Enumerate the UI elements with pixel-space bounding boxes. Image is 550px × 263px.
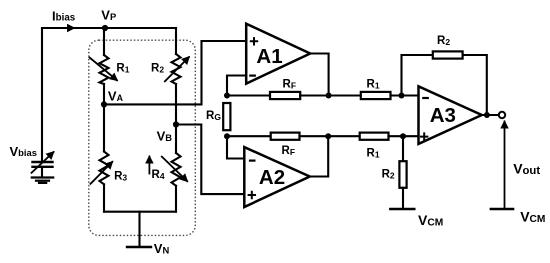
svg-text:R1: R1 xyxy=(116,63,129,75)
wire: A3 - node up to R2 feedback xyxy=(402,55,433,96)
resistor R2 (variable) xyxy=(172,54,181,84)
node: RG bottom junction xyxy=(224,133,230,139)
node: output junction xyxy=(484,112,490,118)
wire: R1(bottom) to A3 + node xyxy=(389,135,419,137)
wire: junction to R1(bottom) xyxy=(328,135,360,137)
resistor R2 (feedback) xyxy=(433,51,463,58)
svg-text:Vout: Vout xyxy=(513,161,540,177)
svg-text:A2: A2 xyxy=(259,166,285,189)
wire: VB to A2 + input xyxy=(176,125,244,195)
wire: RF(top) to junction xyxy=(300,94,328,96)
wire: junction to R1(top) xyxy=(329,94,361,96)
wire: R2 bottom to VCM terminal xyxy=(402,188,404,209)
wire: R3 bottom to bridge bottom xyxy=(103,184,105,211)
wire: VB(node) down to R4 top xyxy=(175,125,177,154)
A2 - input marker xyxy=(250,160,254,162)
op-amp A1 xyxy=(246,24,310,84)
wire: A3 output xyxy=(482,114,499,116)
voltage source Vbias (variable, two plates with arrow) xyxy=(33,162,53,167)
resistor R2 (to VCM) xyxy=(399,161,406,188)
wire: left rail from top rail down to Vbias source xyxy=(41,28,43,161)
svg-text:VN: VN xyxy=(154,241,170,256)
wire: R2 feedback to output node xyxy=(463,55,487,115)
svg-text:R4: R4 xyxy=(152,169,165,181)
resistor RF (top) xyxy=(270,92,300,99)
Ibias current arrow on top rail xyxy=(60,27,74,29)
node: A3 + input junction xyxy=(400,133,406,139)
svg-text:R3: R3 xyxy=(114,170,127,182)
svg-text:RG: RG xyxy=(206,110,221,122)
bridge enclosure (dotted rounded rectangle) xyxy=(89,40,196,235)
wire: VP down to R1 top xyxy=(103,28,105,55)
node VA xyxy=(101,101,107,107)
wire: A3 + node down to R2 (to VCM) xyxy=(402,136,404,161)
svg-text:R2: R2 xyxy=(382,168,395,180)
A3 - input marker xyxy=(423,97,428,99)
R4 increase direction arrow (up) xyxy=(148,157,150,174)
op-amp A3 xyxy=(419,86,482,144)
terminal VCM (left) xyxy=(390,208,414,210)
resistor R1 (top row) xyxy=(361,92,391,99)
svg-text:Vbias: Vbias xyxy=(10,144,37,159)
wire: top rail corner down to R2 top xyxy=(175,28,177,54)
wire: Vbias to ground xyxy=(41,167,43,177)
wire: bridge bottom rail xyxy=(104,211,176,213)
svg-text:RF: RF xyxy=(283,79,297,91)
wire: A1 - input to RG top node xyxy=(227,76,246,96)
A1 - input marker xyxy=(250,74,255,76)
Vout reference arrow xyxy=(504,122,506,209)
svg-text:R2: R2 xyxy=(151,63,164,75)
svg-text:VB: VB xyxy=(157,129,173,144)
node: RG top junction xyxy=(224,93,230,99)
resistor RF (bottom) xyxy=(271,133,300,140)
op-amp A2 xyxy=(244,147,309,207)
resistor R1 (variable) xyxy=(100,55,109,84)
svg-text:VA: VA xyxy=(108,89,124,104)
wire: A2 output to bottom feedback row xyxy=(310,136,328,176)
resistor R1 (bottom row) xyxy=(360,133,389,140)
svg-text:A1: A1 xyxy=(256,45,282,68)
wire: VA(node) down to R3 top xyxy=(103,104,105,151)
A3 + input marker xyxy=(421,133,427,139)
ground xyxy=(32,178,53,183)
svg-text:RF: RF xyxy=(282,145,296,157)
wire: R1(top) to A3 - node xyxy=(391,94,419,96)
wire: VA to A1 + input xyxy=(104,41,246,104)
terminal VN xyxy=(127,246,151,248)
node VB xyxy=(173,121,179,127)
svg-text:R1: R1 xyxy=(367,148,380,160)
svg-text:VCM: VCM xyxy=(520,209,545,225)
svg-text:A3: A3 xyxy=(430,104,456,127)
wire: RF(bottom) to junction xyxy=(300,135,329,137)
resistor R3 (variable) xyxy=(100,152,109,185)
node VP xyxy=(102,25,108,31)
output terminal (open circle) xyxy=(499,112,505,118)
wire: A1 output to top feedback row xyxy=(310,54,328,96)
wire: top rail VP xyxy=(42,27,176,29)
wire: R2 bottom to node VB xyxy=(175,84,177,125)
wire: R4 bottom to bridge bottom xyxy=(175,186,177,212)
node: A1 output / RF / R1 junction xyxy=(326,93,332,99)
wire: R1 bottom to node VA xyxy=(103,84,105,104)
svg-text:R2: R2 xyxy=(437,35,450,47)
A2 + input marker xyxy=(249,192,255,198)
svg-text:R1: R1 xyxy=(367,79,380,91)
wire: RG bottom node to RF(bottom) xyxy=(227,135,271,137)
wire: RG bottom node to A2 - input xyxy=(227,136,244,158)
svg-text:Ibias: Ibias xyxy=(52,9,76,24)
A1 + input marker xyxy=(251,38,257,44)
terminal VCM (right) xyxy=(491,208,513,210)
svg-text:VP: VP xyxy=(101,8,116,23)
node: A2 output / RF / R1 junction xyxy=(325,133,331,139)
resistor R4 (variable) xyxy=(172,153,181,186)
node: A3 - input junction xyxy=(399,93,405,99)
resistor RG xyxy=(223,103,230,130)
svg-text:VCM: VCM xyxy=(418,212,443,228)
wire: bridge bottom to VN terminal xyxy=(138,212,140,247)
wire: RG top node to RF(top) xyxy=(227,94,270,96)
